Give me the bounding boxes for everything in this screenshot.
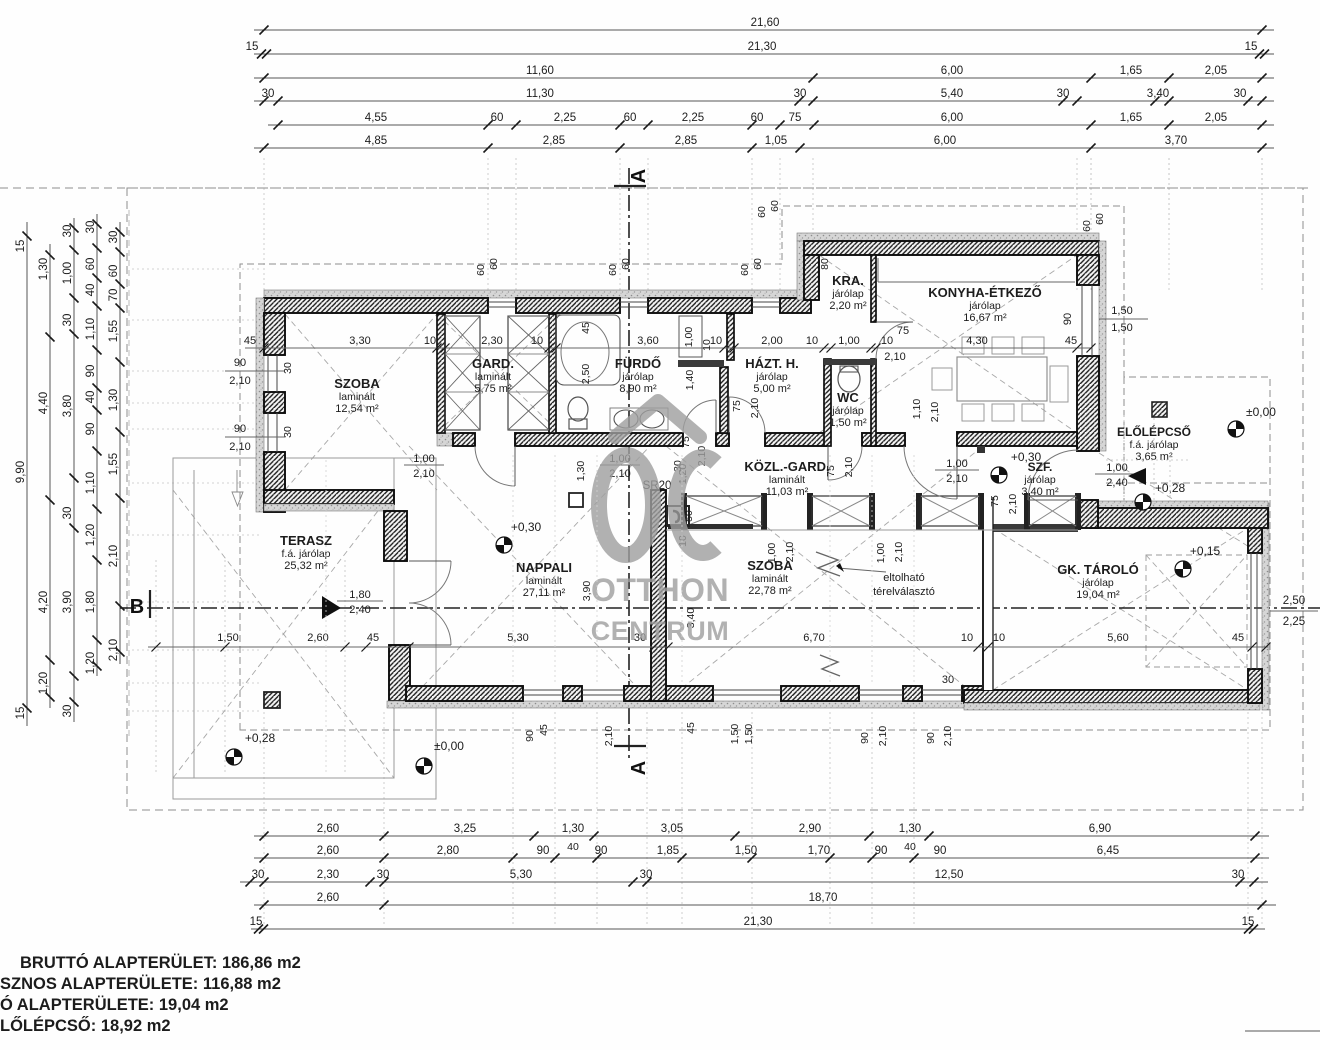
svg-text:1,20: 1,20: [85, 652, 97, 674]
svg-text:1,70: 1,70: [808, 845, 830, 857]
svg-text:1,50 m²: 1,50 m²: [829, 417, 867, 429]
svg-text:75: 75: [731, 400, 743, 412]
svg-text:40: 40: [904, 841, 916, 853]
svg-text:30: 30: [640, 869, 653, 881]
wall konyha top: [804, 241, 1099, 255]
svg-text:60: 60: [1094, 213, 1106, 225]
svg-text:1,10: 1,10: [85, 318, 97, 340]
left dimension chains: [26, 222, 28, 726]
wall nappali/szoba: [651, 490, 666, 701]
svg-text:45: 45: [244, 335, 256, 347]
svg-text:eltolható: eltolható: [883, 572, 925, 584]
svg-text:45: 45: [1232, 632, 1244, 644]
wall kra right: [871, 255, 876, 322]
wall terrace jamb lower: [389, 645, 410, 701]
svg-text:járólap: járólap: [621, 371, 654, 383]
svg-text:járólap: járólap: [1081, 577, 1114, 589]
svg-text:15: 15: [246, 41, 259, 53]
svg-text:1,30: 1,30: [575, 461, 587, 482]
svg-text:1,50: 1,50: [217, 632, 238, 644]
svg-text:ELŐLÉPCSŐ: ELŐLÉPCSŐ: [1117, 424, 1191, 439]
furdo bathtub: [556, 315, 620, 385]
svg-text:60: 60: [752, 258, 764, 270]
wall szoba/gard: [437, 314, 445, 433]
small column box nappali: [569, 493, 583, 507]
svg-text:2,10: 2,10: [877, 726, 889, 747]
svg-text:30: 30: [282, 426, 294, 438]
svg-text:21,60: 21,60: [751, 17, 780, 29]
svg-text:30: 30: [794, 88, 807, 100]
svg-text:1,00: 1,00: [683, 327, 695, 348]
wall jog: [264, 490, 394, 504]
svg-text:SZOBA: SZOBA: [334, 376, 380, 391]
svg-text:60: 60: [739, 264, 751, 276]
svg-text:járólap: járólap: [831, 288, 864, 300]
svg-text:2,90: 2,90: [799, 823, 821, 835]
svg-text:1,65: 1,65: [1120, 65, 1142, 77]
svg-text:90: 90: [934, 845, 947, 857]
roof hip dashed diagonals: [173, 255, 1270, 778]
svg-text:5,75 m²: 5,75 m²: [474, 383, 512, 395]
svg-text:2,10: 2,10: [229, 441, 250, 453]
svg-text:30: 30: [62, 507, 74, 520]
svg-text:3,40: 3,40: [1147, 88, 1169, 100]
svg-text:2,05: 2,05: [1205, 65, 1227, 77]
konyha right wall: [1099, 241, 1106, 451]
svg-text:NAPPALI: NAPPALI: [516, 560, 572, 575]
svg-text:3,70: 3,70: [1165, 135, 1187, 147]
svg-text:1,50: 1,50: [729, 724, 741, 745]
svg-text:2,40: 2,40: [1106, 477, 1127, 489]
wall top: [648, 298, 752, 313]
svg-text:2,00: 2,00: [761, 335, 782, 347]
svg-text:6,70: 6,70: [803, 632, 824, 644]
svg-text:laminált: laminált: [339, 391, 375, 403]
svg-text:+0,28: +0,28: [1155, 481, 1186, 495]
svg-text:11,03 m²: 11,03 m²: [766, 486, 809, 498]
elolepcso step guides: [1106, 415, 1190, 505]
svg-text:2,05: 2,05: [1205, 112, 1227, 124]
svg-text:10: 10: [424, 335, 436, 347]
svg-text:1,10: 1,10: [85, 472, 97, 494]
wall gk right upper: [1248, 503, 1262, 553]
furdo toilet: [568, 397, 588, 421]
svg-text:3,40 m²: 3,40 m²: [1021, 486, 1059, 498]
svg-text:2,10: 2,10: [108, 639, 120, 661]
svg-text:5,30: 5,30: [510, 869, 532, 881]
svg-text:+0,30: +0,30: [1011, 450, 1042, 464]
section line B: [120, 607, 1320, 609]
svg-text:TERASZ: TERASZ: [280, 533, 332, 548]
svg-text:1,85: 1,85: [657, 845, 679, 857]
wall gk bottom: [964, 690, 1260, 703]
wall bottom: [406, 686, 523, 701]
svg-text:1,00: 1,00: [946, 458, 967, 470]
svg-text:6,00: 6,00: [934, 135, 956, 147]
svg-text:A: A: [628, 761, 650, 775]
svg-text:30: 30: [942, 674, 954, 686]
svg-text:2,10: 2,10: [843, 457, 855, 478]
svg-text:2,10: 2,10: [229, 375, 250, 387]
svg-text:75: 75: [789, 112, 802, 124]
svg-text:5,40: 5,40: [941, 88, 963, 100]
svg-text:5,30: 5,30: [507, 632, 528, 644]
svg-text:OTTHON: OTTHON: [591, 572, 729, 608]
konyha window dims: [1099, 318, 1148, 320]
wc toilet: [838, 366, 860, 392]
svg-text:2,60: 2,60: [307, 632, 328, 644]
svg-text:90: 90: [85, 423, 97, 436]
svg-text:GK. TÁROLÓ: GK. TÁROLÓ: [1057, 562, 1139, 577]
svg-text:1,00: 1,00: [62, 262, 74, 284]
svg-text:2,20 m²: 2,20 m²: [829, 300, 867, 312]
svg-text:2,10: 2,10: [413, 468, 434, 480]
svg-text:2,50: 2,50: [1283, 595, 1305, 607]
svg-text:60: 60: [488, 258, 500, 270]
svg-text:3,65 m²: 3,65 m²: [1135, 451, 1173, 463]
top dimension chains: [254, 29, 1274, 31]
svg-text:10: 10: [701, 339, 713, 351]
svg-text:12,54 m²: 12,54 m²: [335, 403, 379, 415]
svg-text:30: 30: [252, 869, 265, 881]
exterior wall: top band of left block with speckle: [264, 290, 811, 298]
guide lines: [132, 158, 1262, 924]
wall wc right: [871, 359, 876, 446]
svg-text:3,80: 3,80: [62, 395, 74, 417]
svg-text:21,30: 21,30: [744, 916, 773, 928]
svg-text:4,30: 4,30: [966, 335, 987, 347]
svg-text:B: B: [130, 596, 144, 618]
svg-text:90: 90: [1062, 313, 1074, 325]
svg-text:1,30: 1,30: [108, 389, 120, 411]
svg-text:19,04 m²: 19,04 m²: [1076, 589, 1120, 601]
svg-text:45: 45: [538, 724, 550, 736]
wall gard/furdo: [549, 314, 556, 433]
svg-text:10: 10: [993, 632, 1005, 644]
svg-text:3,30: 3,30: [349, 335, 370, 347]
section arrow: [322, 596, 341, 619]
svg-text:1,50: 1,50: [735, 845, 757, 857]
szoba2/gk divider thin wall: [983, 497, 993, 690]
svg-text:60: 60: [624, 112, 637, 124]
svg-text:1,30: 1,30: [899, 823, 921, 835]
svg-text:laminált: laminált: [526, 575, 562, 587]
door dimension pairs: [404, 464, 444, 466]
svg-text:90: 90: [595, 845, 608, 857]
svg-text:30: 30: [262, 88, 275, 100]
svg-text:45: 45: [1065, 335, 1077, 347]
svg-text:1,80: 1,80: [85, 591, 97, 613]
svg-text:2,25: 2,25: [1283, 616, 1305, 628]
svg-text:f.á. járólap: f.á. járólap: [281, 548, 330, 560]
svg-text:30: 30: [62, 314, 74, 327]
svg-text:90: 90: [234, 357, 246, 369]
svg-text:1,80: 1,80: [349, 589, 370, 601]
svg-text:CENTRUM: CENTRUM: [591, 616, 730, 646]
roof overhang dashed outline: [240, 206, 1270, 730]
svg-text:1,50: 1,50: [1111, 305, 1132, 317]
svg-text:40: 40: [567, 841, 579, 853]
svg-text:2,10: 2,10: [893, 542, 905, 563]
konyha dining table: [957, 357, 1047, 401]
wall konyha right lower: [1077, 356, 1099, 451]
wall left lower: [264, 452, 285, 512]
svg-text:3,05: 3,05: [661, 823, 683, 835]
svg-text:4,20: 4,20: [38, 591, 50, 613]
svg-text:6,45: 6,45: [1097, 845, 1119, 857]
svg-text:27,11 m²: 27,11 m²: [523, 587, 566, 599]
wall szf top: [957, 432, 1077, 446]
svg-text:1,30: 1,30: [562, 823, 584, 835]
svg-text:1,55: 1,55: [108, 320, 120, 342]
svg-text:±0,00: ±0,00: [1246, 405, 1276, 419]
svg-text:2,10: 2,10: [603, 726, 615, 747]
svg-text:5,60: 5,60: [1107, 632, 1128, 644]
svg-text:60: 60: [475, 264, 487, 276]
wall corridor: [453, 433, 475, 446]
svg-text:60: 60: [491, 112, 504, 124]
svg-text:80: 80: [819, 258, 831, 270]
svg-text:12,50: 12,50: [935, 869, 964, 881]
door arcs: [409, 322, 1078, 645]
svg-text:90: 90: [859, 732, 871, 744]
svg-text:laminált: laminált: [769, 474, 805, 486]
svg-text:1,05: 1,05: [765, 135, 787, 147]
svg-text:KÖZL.-GARD.: KÖZL.-GARD.: [744, 459, 829, 474]
svg-text:HÁZT. H.: HÁZT. H.: [745, 356, 798, 371]
elolepcso hatched square: [1152, 402, 1167, 417]
terrace slab outline: [173, 458, 436, 799]
svg-text:30: 30: [377, 869, 390, 881]
built-in wardrobes along corridor: [681, 493, 687, 530]
svg-text:Ó ALAPTERÜLETE: 19,04 m2: Ó ALAPTERÜLETE: 19,04 m2: [0, 995, 229, 1014]
svg-text:WC: WC: [837, 390, 859, 405]
svg-text:25,32 m²: 25,32 m²: [284, 560, 328, 572]
svg-text:15: 15: [1242, 916, 1255, 928]
svg-text:30: 30: [108, 231, 120, 244]
wall top: [264, 298, 488, 313]
left exterior wall: [256, 298, 264, 512]
wall gk top step: [1078, 500, 1098, 528]
svg-text:90: 90: [925, 732, 937, 744]
svg-text:30: 30: [62, 705, 74, 718]
bottom exterior wall band: [387, 701, 986, 708]
svg-text:1,50: 1,50: [1111, 322, 1132, 334]
svg-text:6,90: 6,90: [1089, 823, 1111, 835]
wall corridor: [765, 433, 828, 446]
svg-text:2,85: 2,85: [543, 135, 565, 147]
section line A: [628, 168, 630, 762]
svg-text:10: 10: [531, 335, 543, 347]
wall terrace jamb upper: [384, 511, 407, 561]
svg-text:15: 15: [1245, 41, 1258, 53]
svg-text:±0,00: ±0,00: [434, 739, 464, 753]
svg-text:SZNOS ALAPTERÜLETE: 116,88 m2: SZNOS ALAPTERÜLETE: 116,88 m2: [0, 974, 281, 993]
svg-text:2,60: 2,60: [317, 845, 339, 857]
wall furdo/hazt upper: [727, 314, 734, 360]
interior dim row y348: [245, 347, 1091, 349]
wall left pillar: [264, 392, 285, 413]
svg-text:45: 45: [580, 322, 592, 334]
svg-text:60: 60: [756, 206, 768, 218]
svg-text:22,78 m²: 22,78 m²: [748, 585, 792, 597]
svg-text:16,67 m²: 16,67 m²: [963, 312, 1007, 324]
wall kra left: [804, 255, 819, 300]
wall gk right lower: [1248, 669, 1262, 703]
svg-text:2,85: 2,85: [675, 135, 697, 147]
svg-text:járólap: járólap: [755, 371, 788, 383]
svg-text:60: 60: [769, 200, 781, 212]
interior faint column lines: [326, 455, 914, 775]
wall bottom: [781, 686, 859, 701]
svg-text:laminált: laminált: [752, 573, 788, 585]
svg-text:3,90: 3,90: [62, 591, 74, 613]
svg-text:30: 30: [62, 225, 74, 238]
svg-text:1,00: 1,00: [875, 543, 887, 564]
svg-text:1,55: 1,55: [108, 453, 120, 475]
wall konyha right upper: [1077, 255, 1099, 285]
svg-text:4,55: 4,55: [365, 112, 387, 124]
svg-text:9,90: 9,90: [15, 461, 27, 483]
svg-text:2,40: 2,40: [349, 604, 370, 616]
szoba2 sliding partition zigzags: [816, 552, 840, 576]
SR20 vent box: [667, 506, 689, 526]
terrace slope arrows: [232, 492, 243, 506]
left small dims: [225, 370, 285, 372]
svg-text:75: 75: [897, 325, 909, 337]
window glazing top wall: [488, 302, 780, 307]
wall top: [516, 298, 620, 313]
svg-text:2,10: 2,10: [946, 473, 967, 485]
dim row y647: [148, 646, 1268, 648]
svg-text:60: 60: [751, 112, 764, 124]
wall gk top: [1090, 508, 1268, 528]
svg-text:90: 90: [85, 365, 97, 378]
svg-text:2,25: 2,25: [554, 112, 576, 124]
svg-text:30: 30: [1234, 88, 1247, 100]
svg-text:járólap: járólap: [831, 405, 864, 417]
svg-text:1,20: 1,20: [38, 672, 50, 694]
svg-text:10: 10: [961, 632, 973, 644]
svg-text:45: 45: [367, 632, 379, 644]
svg-text:2,50: 2,50: [580, 364, 592, 385]
svg-text:15: 15: [15, 707, 27, 720]
svg-text:2,25: 2,25: [682, 112, 704, 124]
konyha counter: [878, 281, 1075, 283]
svg-text:1,00: 1,00: [1106, 462, 1127, 474]
svg-text:2,10: 2,10: [929, 402, 941, 423]
svg-text:18,70: 18,70: [809, 892, 838, 904]
wall bottom: [962, 686, 986, 701]
svg-text:30: 30: [282, 362, 294, 374]
gk top wall: [1078, 501, 1268, 508]
terrace pillar: [264, 692, 280, 708]
svg-text:90: 90: [524, 730, 536, 742]
svg-text:LŐLÉPCSŐ: 18,92 m2: LŐLÉPCSŐ: 18,92 m2: [0, 1016, 171, 1035]
wall bottom: [903, 686, 922, 701]
svg-text:30: 30: [1232, 869, 1245, 881]
svg-text:2,10: 2,10: [884, 351, 905, 363]
svg-text:60: 60: [108, 265, 120, 278]
svg-text:1,00: 1,00: [838, 335, 859, 347]
svg-text:2,30: 2,30: [481, 335, 502, 347]
svg-text:+0,15: +0,15: [1190, 544, 1221, 558]
svg-text:15: 15: [15, 240, 27, 253]
svg-text:10: 10: [881, 335, 893, 347]
svg-text:60: 60: [620, 258, 632, 270]
gk/szf thin wall: [983, 524, 1078, 532]
svg-text:45: 45: [685, 722, 697, 734]
svg-text:1,50: 1,50: [743, 724, 755, 745]
svg-text:60: 60: [1081, 220, 1093, 232]
svg-text:4,40: 4,40: [38, 392, 50, 414]
svg-text:90: 90: [537, 845, 550, 857]
wall bottom: [563, 686, 582, 701]
svg-text:90: 90: [875, 845, 888, 857]
svg-text:2,10: 2,10: [942, 726, 954, 747]
svg-text:1,00: 1,00: [413, 453, 434, 465]
svg-text:járólap: járólap: [1023, 474, 1056, 486]
svg-text:6,00: 6,00: [941, 65, 963, 77]
svg-text:2,80: 2,80: [437, 845, 459, 857]
site boundary dashed: [0, 188, 1310, 810]
wall corridor: [862, 433, 905, 446]
svg-text:FÜRDŐ: FÜRDŐ: [615, 356, 661, 371]
elevation markers: [226, 749, 242, 765]
svg-text:3,25: 3,25: [454, 823, 476, 835]
svg-text:járólap: járólap: [968, 300, 1001, 312]
svg-text:60: 60: [85, 258, 97, 271]
wall furdo/hazt lower: [720, 367, 728, 433]
svg-text:21,30: 21,30: [748, 41, 777, 53]
svg-text:70: 70: [108, 289, 120, 302]
svg-text:40: 40: [85, 284, 97, 297]
svg-text:5,00 m²: 5,00 m²: [753, 383, 791, 395]
svg-text:3,60: 3,60: [637, 335, 658, 347]
svg-text:1,40: 1,40: [684, 370, 696, 391]
svg-text:11,60: 11,60: [526, 65, 554, 77]
svg-text:60: 60: [607, 264, 619, 276]
corridor wall band: [437, 433, 453, 446]
watermark Otthon Centrum: [591, 401, 730, 646]
svg-text:2,60: 2,60: [317, 823, 339, 835]
svg-text:2,60: 2,60: [317, 892, 339, 904]
svg-text:1,10: 1,10: [911, 399, 923, 420]
wall bottom: [624, 686, 713, 701]
svg-text:6,00: 6,00: [941, 112, 963, 124]
svg-text:40: 40: [85, 391, 97, 404]
furdo double sink: [610, 408, 668, 430]
svg-text:BRUTTÓ ALAPTERÜLET: 186,86 m2: BRUTTÓ ALAPTERÜLET: 186,86 m2: [20, 953, 301, 972]
svg-text:1,65: 1,65: [1120, 112, 1142, 124]
wall top: [780, 298, 811, 313]
bottom dimension chains: [254, 835, 1269, 837]
svg-text:KRA.: KRA.: [832, 273, 864, 288]
wall left upper: [264, 313, 285, 355]
gk right wall: [1262, 503, 1269, 710]
svg-text:15: 15: [250, 916, 263, 928]
svg-text:2,10: 2,10: [108, 545, 120, 567]
svg-text:KONYHA-ÉTKEZŐ: KONYHA-ÉTKEZŐ: [928, 285, 1041, 300]
svg-text:térelválasztó: térelválasztó: [873, 586, 935, 598]
svg-text:8,90 m²: 8,90 m²: [619, 383, 657, 395]
svg-text:A: A: [628, 169, 650, 183]
exterior wall: konyha top band: [797, 233, 1099, 241]
svg-text:30: 30: [85, 221, 97, 234]
svg-text:90: 90: [234, 423, 246, 435]
wall corridor: [515, 433, 683, 446]
svg-text:laminált: laminált: [475, 371, 511, 383]
